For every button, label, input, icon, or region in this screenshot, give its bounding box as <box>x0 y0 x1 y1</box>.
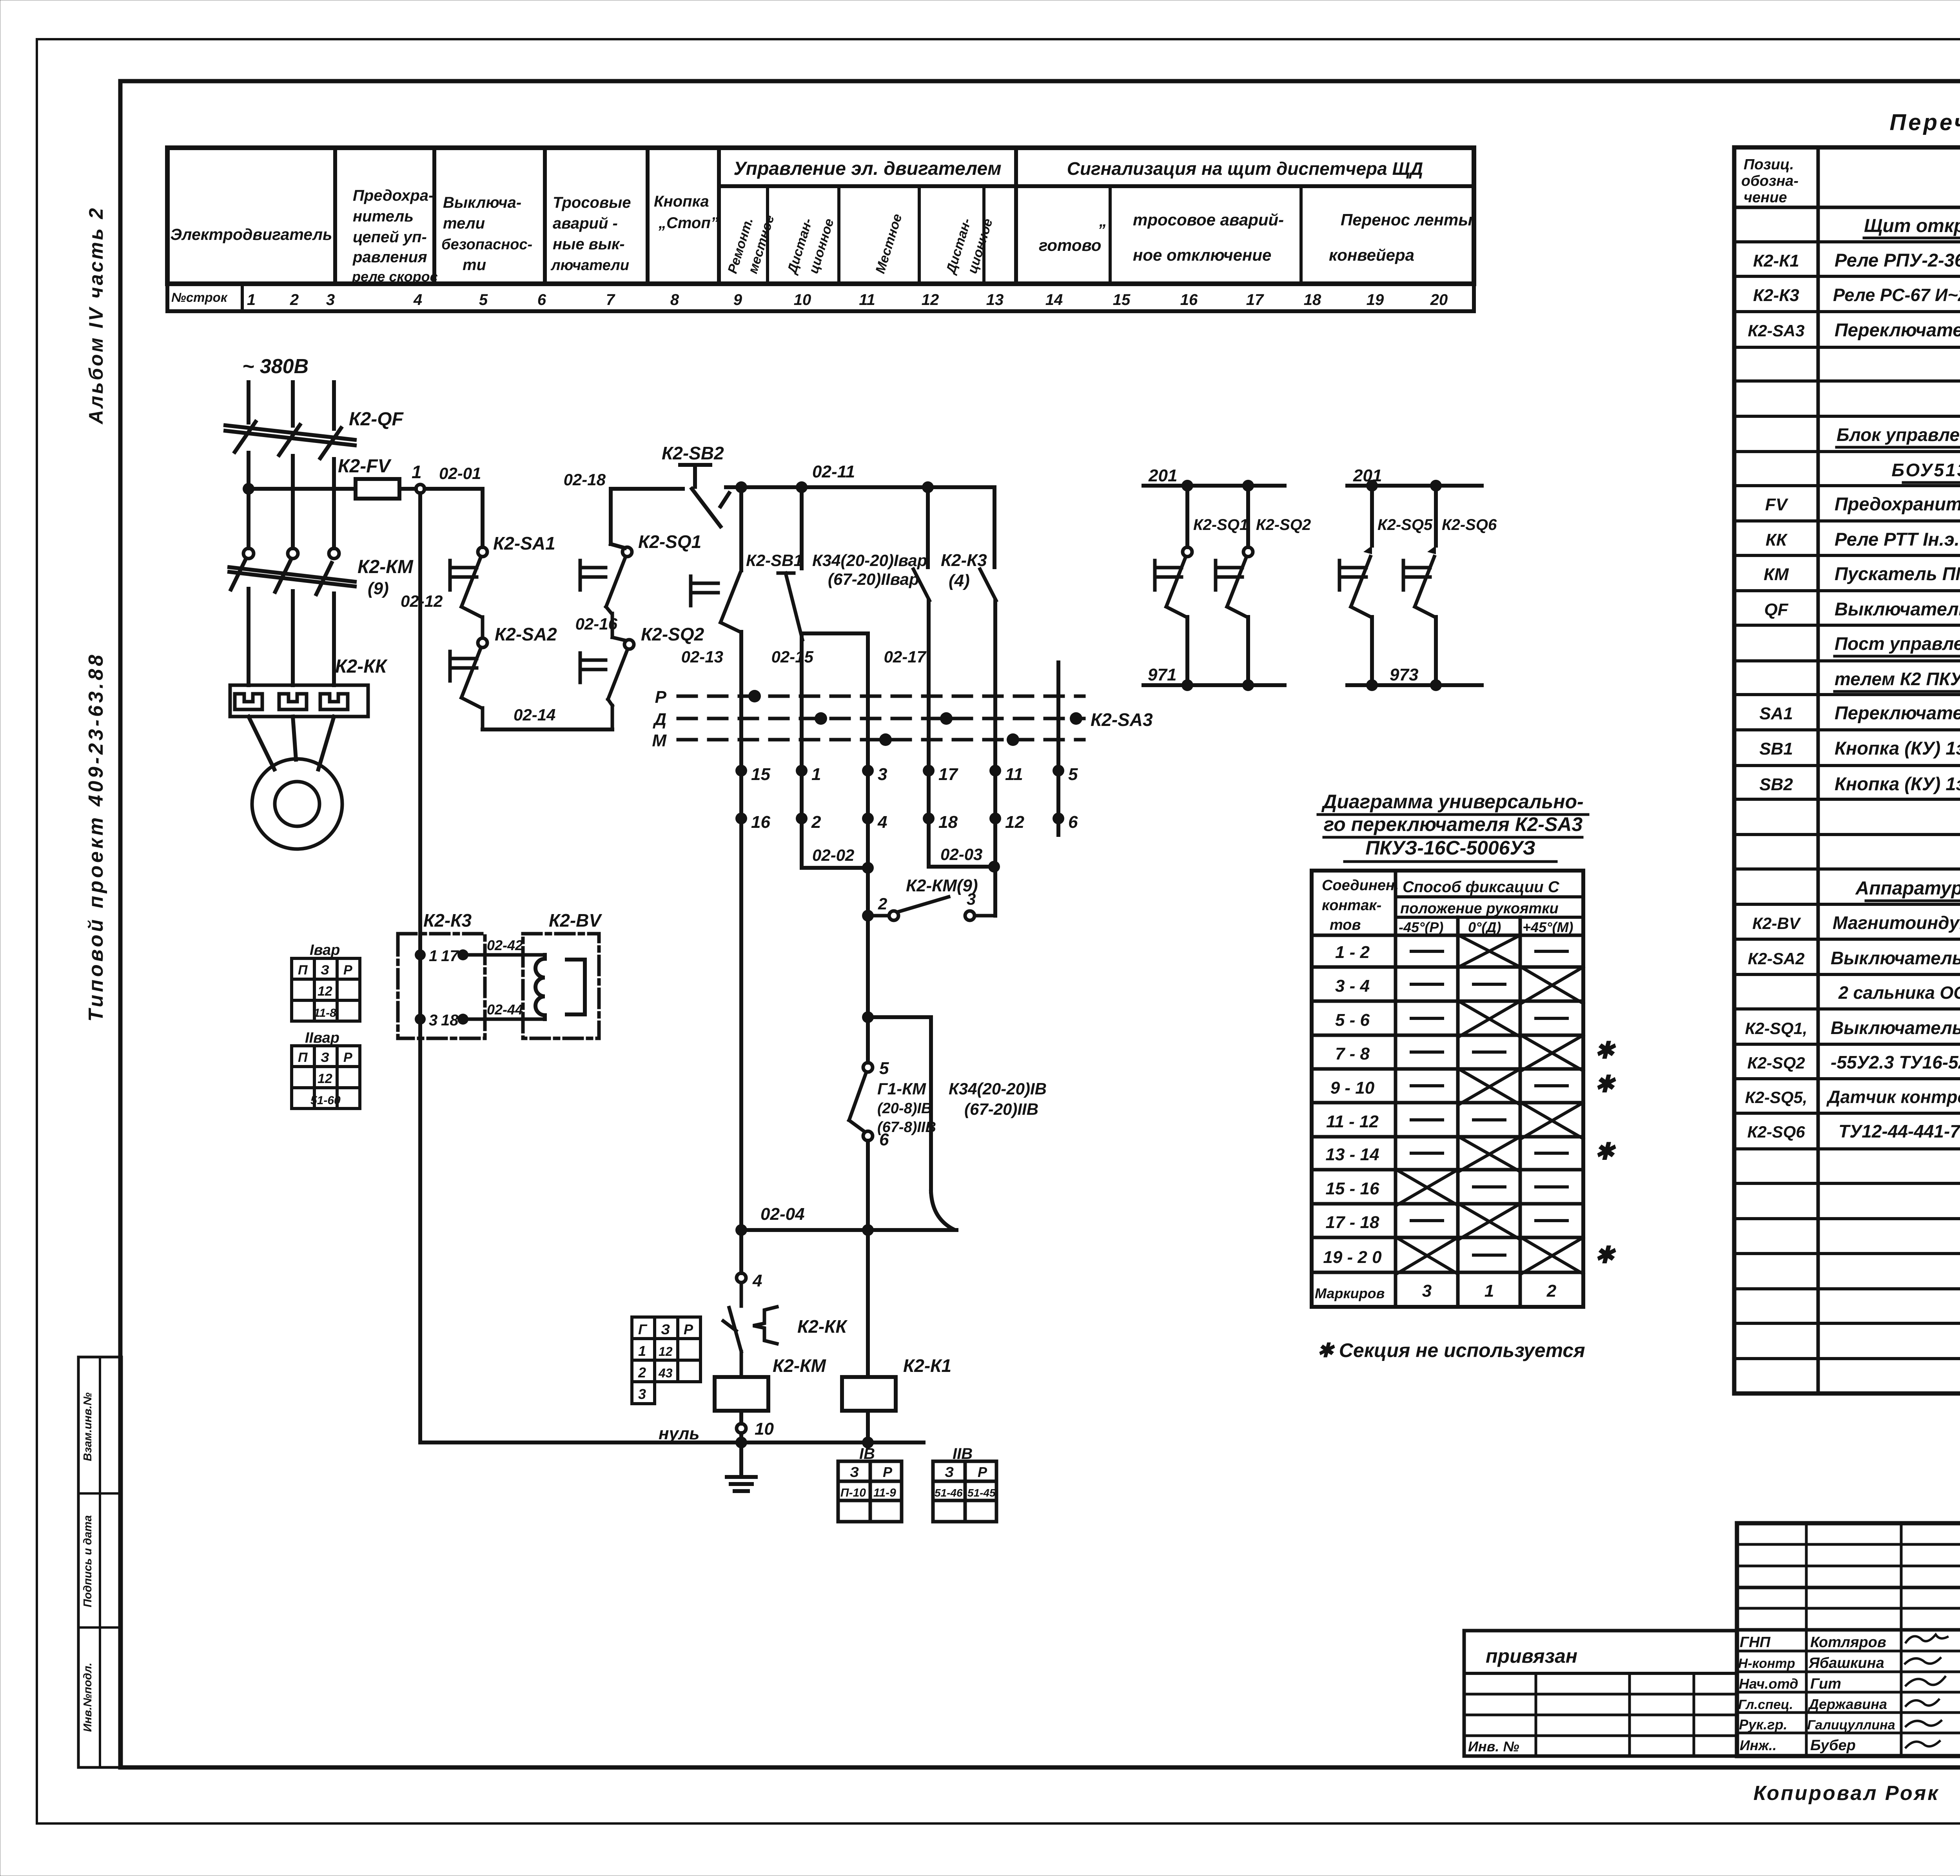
svg-text:SB1: SB1 <box>1759 739 1793 758</box>
wire to fuse <box>249 487 356 491</box>
svg-text:2: 2 <box>811 813 821 832</box>
svg-text:5 - 6: 5 - 6 <box>1335 1011 1370 1030</box>
svg-text:Подпись и дата: Подпись и дата <box>82 1515 94 1607</box>
wire rail 02-11 <box>726 485 995 489</box>
relay box K2-K3 <box>398 934 485 1038</box>
svg-text:4: 4 <box>877 813 887 832</box>
terminal 16 <box>735 813 747 824</box>
svg-text:М: М <box>652 731 667 750</box>
svg-text:Взам.инв.№: Взам.инв.№ <box>82 1392 94 1461</box>
svg-text:02-01: 02-01 <box>439 464 481 483</box>
svg-text:7: 7 <box>606 291 615 308</box>
svg-text:IВ: IВ <box>859 1445 875 1462</box>
svg-text:(20-8)IВ: (20-8)IВ <box>877 1100 932 1117</box>
svg-text:К2-SQ2: К2-SQ2 <box>1256 516 1311 533</box>
column C1 remote contact <box>691 487 741 818</box>
svg-text:Аппаратура по месту: Аппаратура по месту <box>1855 878 1960 899</box>
selector contact dots <box>748 690 761 702</box>
svg-text:973: 973 <box>1390 665 1418 684</box>
svg-text:К2-К1: К2-К1 <box>1753 251 1799 270</box>
terminal 2 <box>796 813 808 824</box>
aux contact K2-KM(9) <box>868 897 995 920</box>
svg-text:02-44: 02-44 <box>487 1002 523 1018</box>
svg-text:12: 12 <box>922 291 939 308</box>
svg-text:КМ: КМ <box>1764 565 1789 584</box>
svg-text:Переключатель ПКУЗ-16СУЗ схем: Переключатель ПКУЗ-16СУЗ схема 5006 <box>1835 319 1960 340</box>
wire phase B top <box>291 382 295 426</box>
svg-text:Р: Р <box>883 1464 893 1480</box>
svg-text:201: 201 <box>1148 466 1177 485</box>
svg-text:Р: Р <box>343 1050 352 1065</box>
svg-text:К2-SQ5,: К2-SQ5, <box>1745 1088 1808 1107</box>
limit switch K2-SQ2 right <box>1216 486 1253 685</box>
svg-text:2 сальника ОСТ16.0.526.001-7: 2 сальника ОСТ16.0.526.001-77 <box>1838 983 1960 1003</box>
svg-text:1: 1 <box>638 1343 646 1359</box>
svg-text:✱: ✱ <box>1595 1242 1616 1268</box>
svg-text:З: З <box>321 1050 329 1065</box>
coil K2-KM <box>715 1377 768 1411</box>
stop button K2-SB2 <box>680 465 729 526</box>
svg-text:5: 5 <box>879 1059 889 1078</box>
svg-text:К34(20-20)Iвар: К34(20-20)Iвар <box>812 551 927 570</box>
wire phase C top <box>332 382 336 429</box>
svg-text:Переключатель (ПФ2) 1з +1р: Переключатель (ПФ2) 1з +1р <box>1835 702 1960 723</box>
svg-text:З: З <box>850 1464 859 1480</box>
svg-text:(4): (4) <box>949 571 970 590</box>
svg-text:положение рукоятки: положение рукоятки <box>1400 900 1559 917</box>
svg-text:Бубер: Бубер <box>1810 1737 1856 1754</box>
wire 02-01 <box>425 487 483 491</box>
svg-text:обозна-: обозна- <box>1741 173 1798 189</box>
svg-text:Гл.спец.: Гл.спец. <box>1738 1697 1793 1712</box>
coil K2-K1 <box>866 1230 870 1377</box>
svg-text:3: 3 <box>326 291 335 308</box>
wires to motor <box>249 717 274 769</box>
svg-text:3: 3 <box>638 1386 646 1402</box>
svg-text:Выключатель пакетный ПВ3-10У: Выключатель пакетный ПВ3-10У256Б <box>1831 948 1960 968</box>
svg-text:02-18: 02-18 <box>564 470 606 489</box>
svg-text:15 - 16: 15 - 16 <box>1326 1179 1380 1198</box>
junction dots on 02-11 <box>735 481 747 493</box>
svg-text:11: 11 <box>1005 765 1023 784</box>
svg-text:19 - 2 0: 19 - 2 0 <box>1323 1248 1382 1267</box>
svg-text:”: ” <box>1098 221 1105 239</box>
svg-text:02-13: 02-13 <box>681 648 723 666</box>
svg-text:„Стоп”: „Стоп” <box>658 214 719 232</box>
svg-text:ГНП: ГНП <box>1740 1634 1771 1651</box>
svg-text:К2-КК: К2-КК <box>335 656 388 677</box>
terminal 12 <box>989 813 1001 824</box>
svg-text:✱: ✱ <box>1595 1138 1616 1165</box>
svg-text:2: 2 <box>638 1364 646 1381</box>
svg-text:7 - 8: 7 - 8 <box>1335 1044 1370 1063</box>
svg-text:Р: Р <box>655 688 667 707</box>
svg-text:Датчик контроля схода ленты: Датчик контроля схода ленты КСЛ-2 <box>1826 1087 1960 1107</box>
svg-text:телем К2 ПКУ15-19.141-54У2: телем К2 ПКУ15-19.141-54У2 <box>1835 669 1960 689</box>
wire SB1 to C3 <box>802 631 868 635</box>
svg-text:нитель: нитель <box>353 208 414 225</box>
svg-text:З: З <box>661 1321 670 1337</box>
svg-text:ти: ти <box>463 256 486 274</box>
svg-text:Гит: Гит <box>1810 1676 1841 1692</box>
svg-text:К2-SA3: К2-SA3 <box>1091 709 1153 730</box>
svg-text:К2-BV: К2-BV <box>549 910 602 931</box>
svg-text:Способ фиксации С: Способ фиксации С <box>1403 878 1560 896</box>
table G-Z-R <box>632 1317 701 1404</box>
svg-text:-45°(Р): -45°(Р) <box>1399 919 1443 935</box>
svg-text:02-17: 02-17 <box>884 648 927 666</box>
svg-text:Котляров: Котляров <box>1810 1634 1886 1651</box>
svg-text:2: 2 <box>1546 1281 1557 1301</box>
sensor coil <box>535 955 545 1019</box>
svg-text:IIВ: IIВ <box>953 1445 973 1462</box>
terminal 5 <box>1053 765 1064 777</box>
terminal 3 <box>862 765 874 777</box>
svg-text:безопаснос-: безопаснос- <box>441 236 532 253</box>
belt sensor K2-SQ5 <box>1339 486 1372 685</box>
pin 1 17 <box>415 949 426 960</box>
svg-text:К2-SQ5: К2-SQ5 <box>1377 516 1433 533</box>
svg-text:К2-SQ1: К2-SQ1 <box>1193 516 1248 533</box>
svg-text:6: 6 <box>879 1130 889 1149</box>
null rail <box>420 1441 924 1444</box>
terminal 4 lower <box>739 818 743 1273</box>
wire down to SQ1 <box>609 489 613 544</box>
table IIvar <box>292 1046 360 1109</box>
svg-text:14: 14 <box>1045 291 1063 308</box>
svg-text:FV: FV <box>1765 495 1789 514</box>
svg-text:51-60: 51-60 <box>310 1094 341 1107</box>
wire 02-18 <box>611 487 683 491</box>
terminal 6 lower <box>863 1131 873 1141</box>
contact K2-K3 on C5 <box>980 487 996 867</box>
svg-text:Державина: Державина <box>1808 1696 1887 1712</box>
svg-text:11: 11 <box>859 291 875 308</box>
terminal 11 <box>989 765 1001 777</box>
svg-text:К2-SQ6: К2-SQ6 <box>1747 1123 1805 1141</box>
svg-text:Управление эл. двигателем: Управление эл. двигателем <box>733 158 1001 179</box>
svg-text:К2-SQ6: К2-SQ6 <box>1442 516 1497 533</box>
svg-text:Копировал Рояк: Копировал Рояк <box>1753 1782 1940 1805</box>
svg-text:19: 19 <box>1367 291 1384 308</box>
svg-text:К2-К1: К2-К1 <box>903 1355 951 1376</box>
svg-text:Предохра-: Предохра- <box>353 187 434 204</box>
svg-text:готово: готово <box>1039 236 1101 254</box>
svg-text:К2-К3: К2-К3 <box>941 551 987 570</box>
terminal 6 <box>1053 813 1064 824</box>
svg-text:К2-КМ(9): К2-КМ(9) <box>906 876 978 895</box>
svg-text:К2-QF: К2-QF <box>349 409 404 430</box>
svg-text:15: 15 <box>1113 291 1131 308</box>
svg-text:10: 10 <box>755 1419 774 1439</box>
svg-text:аварий -: аварий - <box>553 215 618 232</box>
column C6 <box>1056 662 1060 835</box>
svg-text:Нач.отд: Нач.отд <box>1739 1676 1798 1692</box>
svg-text:02-16: 02-16 <box>575 615 618 633</box>
svg-text:9 - 10: 9 - 10 <box>1330 1078 1375 1098</box>
svg-text:Блок управления электродвигат: Блок управления электродвигателем К2 <box>1837 425 1960 445</box>
svg-text:Инв.№подл.: Инв.№подл. <box>82 1663 94 1732</box>
svg-text:З: З <box>945 1464 954 1480</box>
terminal 18 <box>923 813 935 824</box>
svg-text:4: 4 <box>413 291 422 308</box>
wire C3 down <box>866 868 870 1017</box>
svg-text:6: 6 <box>1068 813 1078 832</box>
svg-text:15: 15 <box>751 765 770 784</box>
svg-text:12: 12 <box>318 1071 332 1086</box>
contactor K2-KM main contacts <box>229 548 355 685</box>
svg-text:Кнопка: Кнопка <box>654 193 709 210</box>
svg-text:✱: ✱ <box>1595 1037 1616 1063</box>
switch K2-SA1 <box>450 547 487 638</box>
section-unused asterisks <box>1595 1037 1616 1268</box>
svg-text:SB2: SB2 <box>1759 775 1793 794</box>
wire 02-42 <box>468 953 545 957</box>
svg-text:Галицуллина: Галицуллина <box>1807 1718 1895 1733</box>
svg-text:К34(20-20)IВ: К34(20-20)IВ <box>949 1080 1047 1098</box>
svg-text:Диаграмма универсально-: Диаграмма универсально- <box>1321 791 1583 813</box>
svg-text:9: 9 <box>733 291 742 308</box>
svg-text:02-04: 02-04 <box>760 1205 805 1224</box>
selector row P dashed <box>678 695 1084 698</box>
svg-text:Электродвигатель: Электродвигатель <box>171 225 332 243</box>
selector row D dashed <box>678 717 1084 720</box>
contact G1-KM <box>849 1072 866 1131</box>
svg-text:(67-20)IIвар: (67-20)IIвар <box>828 570 919 588</box>
svg-text:Реле РТТ Iн.э. 32А: Реле РТТ Iн.э. 32А <box>1835 529 1960 550</box>
svg-text:18: 18 <box>441 1012 459 1029</box>
terminal 4 <box>862 813 874 824</box>
terminal 15 <box>735 765 747 777</box>
title block <box>1737 1523 1960 1756</box>
svg-text:К2-SQ1,: К2-SQ1, <box>1745 1019 1808 1038</box>
svg-text:✱: ✱ <box>1595 1071 1616 1097</box>
svg-text:цепей уп-: цепей уп- <box>353 229 427 246</box>
svg-text:контак-: контак- <box>1322 897 1381 914</box>
svg-text:Соединен.: Соединен. <box>1322 877 1399 894</box>
svg-text:Ябашкина: Ябашкина <box>1808 1655 1884 1671</box>
table IIV lower <box>933 1461 996 1522</box>
svg-text:3: 3 <box>429 1012 437 1029</box>
svg-text:3 - 4: 3 - 4 <box>1335 976 1370 996</box>
wire phase A top <box>247 382 250 423</box>
svg-text:11-9: 11-9 <box>873 1486 896 1499</box>
svg-text:18: 18 <box>1304 291 1321 308</box>
svg-text:К2-КМ: К2-КМ <box>773 1355 826 1376</box>
svg-text:К2-КМ: К2-КМ <box>358 557 414 577</box>
svg-text:Выключатель АЕ2046-10УЗ Iр4: Выключатель АЕ2046-10УЗ Iр40А <box>1835 599 1960 619</box>
svg-text:02-12: 02-12 <box>401 592 443 610</box>
svg-text:лючатели: лючатели <box>550 257 629 274</box>
svg-text:Кнопка (КУ) 1з +1р , черн.„пус: Кнопка (КУ) 1з +1р , черн.„пуск” <box>1835 738 1960 758</box>
svg-text:11 - 12: 11 - 12 <box>1326 1112 1379 1131</box>
selector diagram table <box>1312 871 1583 1307</box>
wire node1 down rail <box>418 493 422 1442</box>
svg-text:Р: Р <box>343 963 352 978</box>
svg-text:ТУ12-44-441-75: ТУ12-44-441-75 <box>1838 1121 1960 1141</box>
limit switch K2-SQ1 <box>580 547 632 637</box>
svg-text:Инж..: Инж.. <box>1740 1737 1777 1753</box>
svg-text:Р: Р <box>684 1321 693 1337</box>
svg-text:1 - 2: 1 - 2 <box>1335 943 1370 962</box>
svg-text:равления: равления <box>352 249 427 266</box>
svg-text:1: 1 <box>247 291 256 308</box>
wire 02-03 jog <box>929 818 994 867</box>
svg-text:Р: Р <box>978 1464 987 1480</box>
svg-text:Предохранитель ППТ-10УЗ,6А: Предохранитель ППТ-10УЗ,6А <box>1835 493 1960 514</box>
svg-text:~ 380В: ~ 380В <box>242 355 309 378</box>
svg-text:КК: КК <box>1766 530 1788 550</box>
svg-text:4: 4 <box>752 1271 762 1290</box>
svg-text:43: 43 <box>658 1366 673 1380</box>
terminal 1 <box>796 765 808 777</box>
sensor box K2-BV <box>523 934 599 1038</box>
svg-text:Г1-КМ: Г1-КМ <box>877 1080 926 1098</box>
svg-text:нуль: нуль <box>659 1424 700 1443</box>
svg-text:1: 1 <box>412 462 422 482</box>
svg-text:чение: чение <box>1744 189 1787 206</box>
svg-text:971: 971 <box>1148 665 1176 684</box>
svg-text:16: 16 <box>751 813 770 832</box>
svg-text:тели: тели <box>443 215 485 232</box>
wire fuse to node 1 <box>399 487 416 491</box>
svg-text:К2-SQ1: К2-SQ1 <box>638 532 701 552</box>
svg-text:Сигнализация на щит диспетчера: Сигнализация на щит диспетчера ЩД <box>1067 158 1423 179</box>
svg-text:8: 8 <box>670 291 679 308</box>
wire 02-02 jog <box>802 818 868 868</box>
svg-text:Выключатель путевой ВП16Г23Б: Выключатель путевой ВП16Г23Б251 - <box>1831 1018 1960 1038</box>
svg-text:02-11: 02-11 <box>812 462 855 481</box>
svg-text:+45°(М): +45°(М) <box>1523 919 1573 935</box>
svg-text:ное отключение: ное отключение <box>1133 246 1271 264</box>
belt sensor K2-SQ6 <box>1403 486 1436 685</box>
svg-text:Г: Г <box>638 1321 648 1337</box>
svg-text:БОУ5130 - 3574УХЛ4Б: БОУ5130 - 3574УХЛ4Б <box>1891 460 1960 480</box>
svg-text:10: 10 <box>794 291 811 308</box>
svg-text:Тросовые: Тросовые <box>553 194 631 211</box>
svg-text:К2-SA2: К2-SA2 <box>495 624 557 644</box>
svg-text:Магнитоиндуктивный датчик ДМ: Магнитоиндуктивный датчик ДМ-2 <box>1833 913 1960 933</box>
svg-text:Перечень элементов: Перечень элементов <box>1890 110 1960 135</box>
svg-text:02-42: 02-42 <box>487 937 523 953</box>
svg-text:К2-SA2: К2-SA2 <box>1748 949 1805 968</box>
svg-text:6: 6 <box>537 291 546 308</box>
svg-text:К2-К3: К2-К3 <box>423 910 472 931</box>
svg-text:К2-BV: К2-BV <box>1752 914 1801 933</box>
svg-text:QF: QF <box>1764 600 1788 619</box>
margin stamp boxes <box>78 1357 122 1767</box>
svg-text:Инв. №: Инв. № <box>1468 1738 1519 1754</box>
terminal 17 <box>923 765 935 777</box>
svg-text:ные вык-: ные вык- <box>553 236 625 253</box>
svg-text:12: 12 <box>659 1344 673 1359</box>
svg-text:17: 17 <box>938 765 958 784</box>
svg-text:12: 12 <box>1005 813 1024 832</box>
svg-text:11-8: 11-8 <box>314 1007 336 1020</box>
svg-text:П: П <box>298 1050 308 1065</box>
wire down to SA1 <box>481 489 485 547</box>
svg-text:Реле РС-67 И~220В комплект да: Реле РС-67 И~220В комплект датчик ДМ-2 <box>1833 285 1960 305</box>
wire 02-44 <box>468 1018 545 1021</box>
svg-text:конвейера: конвейера <box>1329 246 1414 264</box>
svg-text:П: П <box>298 963 308 978</box>
svg-text:5: 5 <box>479 291 488 308</box>
svg-text:12: 12 <box>318 984 332 999</box>
svg-text:Пост управления К2-ПУ электро: Пост управления К2-ПУ электродвига- <box>1835 633 1960 654</box>
svg-text:реле скорос: реле скорос <box>352 269 438 285</box>
svg-text:К2-SB1: К2-SB1 <box>746 551 803 570</box>
svg-text:02-15: 02-15 <box>771 648 814 666</box>
contact K34 on C4 <box>913 487 929 818</box>
motor M <box>252 759 342 849</box>
thermal relay K2-KK <box>230 685 368 717</box>
svg-text:16: 16 <box>1180 291 1198 308</box>
node 1 <box>416 484 425 493</box>
privyazan stamp <box>1464 1631 1737 1756</box>
svg-text:тросовое аварий-: тросовое аварий- <box>1133 210 1284 229</box>
svg-text:К2-SQ2: К2-SQ2 <box>641 624 704 644</box>
bypass branch K34 <box>868 1017 931 1192</box>
svg-text:Пускатель ПМА3200-УХЛ4Б И~22: Пускатель ПМА3200-УХЛ4Б И~220В <box>1835 563 1960 584</box>
selector row M dashed <box>678 738 1084 742</box>
svg-text:(67-20)IIВ: (67-20)IIВ <box>964 1100 1038 1118</box>
svg-text:1: 1 <box>1485 1281 1494 1301</box>
svg-text:Iвар: Iвар <box>310 942 340 958</box>
svg-text:13 - 14: 13 - 14 <box>1326 1145 1379 1164</box>
svg-text:02-03: 02-03 <box>940 845 982 864</box>
svg-text:Маркиров: Маркиров <box>1315 1285 1385 1301</box>
svg-text:17: 17 <box>1246 291 1264 308</box>
svg-text:З: З <box>321 963 329 978</box>
fuse K2-FV <box>356 479 399 499</box>
svg-text:К2-SA1: К2-SA1 <box>493 533 555 553</box>
svg-text:17 - 18: 17 - 18 <box>1326 1213 1380 1232</box>
wire 02-14 <box>483 728 612 731</box>
svg-text:Типовой проект 409-23-63.88: Типовой проект 409-23-63.88 <box>85 652 107 1022</box>
pin 3 18 <box>415 1014 426 1025</box>
svg-text:го переключателя К2-SA3: го переключателя К2-SA3 <box>1324 813 1583 835</box>
svg-text:Выключа-: Выключа- <box>443 194 521 211</box>
svg-text:П-10: П-10 <box>840 1486 866 1499</box>
svg-text:К2-FV: К2-FV <box>338 456 392 477</box>
diagram dashes and X marks <box>1396 935 1583 1274</box>
svg-text:Кнопка (КУ) 1з +1р, красн. „ст: Кнопка (КУ) 1з +1р, красн. „стоп” <box>1835 773 1960 794</box>
svg-text:3: 3 <box>1422 1281 1432 1301</box>
wire coil to null <box>739 1411 743 1424</box>
svg-text:13: 13 <box>986 291 1004 308</box>
note section not used <box>1317 1339 1585 1361</box>
svg-text:SA1: SA1 <box>1759 704 1793 723</box>
limit switch K2-SQ2 <box>580 637 634 729</box>
svg-text:К2-КК: К2-КК <box>797 1316 848 1337</box>
svg-text:2: 2 <box>290 291 299 308</box>
button K2-SB1 <box>778 487 802 818</box>
signal header table <box>167 148 1474 311</box>
svg-text:Альбом IV часть 2: Альбом IV часть 2 <box>85 206 107 425</box>
svg-text:привязан: привязан <box>1486 1645 1577 1667</box>
svg-text:Реле РПУ-2-36220УЗБ И~220В: Реле РПУ-2-36220УЗБ И~220В <box>1835 250 1960 270</box>
svg-text:Щит открытый 1Щ: Щит открытый 1Щ <box>1864 216 1960 236</box>
svg-text:02-14: 02-14 <box>514 706 555 724</box>
switch K2-SA2 <box>450 638 487 729</box>
svg-text:Н-контр: Н-контр <box>1738 1656 1795 1671</box>
thermal contact K2-KK <box>723 1283 777 1377</box>
svg-text:№строк: №строк <box>171 290 228 305</box>
sensor bracket <box>567 960 585 1014</box>
svg-text:17: 17 <box>441 947 459 965</box>
svg-text:✱ Секция не используется: ✱ Секция не используется <box>1317 1339 1585 1361</box>
table IV lower <box>838 1461 902 1522</box>
